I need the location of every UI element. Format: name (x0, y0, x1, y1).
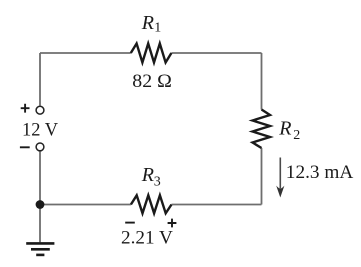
svg-text:12 V: 12 V (22, 120, 58, 141)
svg-text:3: 3 (154, 175, 161, 190)
svg-text:12.3 mA: 12.3 mA (286, 162, 354, 183)
svg-text:1: 1 (154, 21, 161, 36)
svg-text:2: 2 (293, 128, 300, 143)
svg-text:2.21 V: 2.21 V (121, 227, 173, 248)
svg-text:R: R (141, 164, 154, 186)
svg-text:R: R (141, 12, 154, 34)
svg-text:82 Ω: 82 Ω (132, 71, 172, 92)
svg-text:R: R (278, 118, 291, 140)
